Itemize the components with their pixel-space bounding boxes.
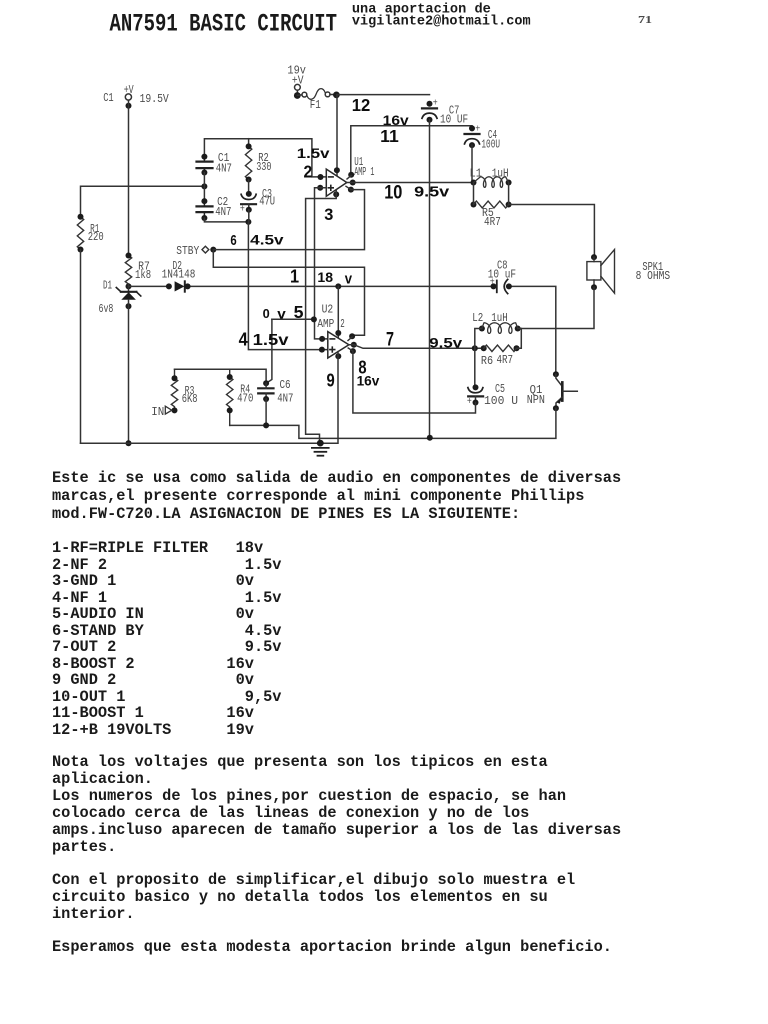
wire C2 bottom to NF node [204,218,248,222]
speaker SPK1 [591,254,597,260]
svg-text:4N7: 4N7 [216,163,232,176]
wire 18v drop to U2 top [337,286,339,338]
svg-text:100U: 100U [481,138,500,151]
wire R2 stub from top rail [248,139,250,147]
svg-text:U2: U2 [322,304,334,317]
wire L2/R6 parallel connections [475,329,522,349]
svg-text:1: 1 [290,266,299,286]
svg-text:Esperamos que esta modesta apo: Esperamos que esta modesta aportacion br… [52,938,612,956]
resistor R6 4R7 [481,345,487,351]
wire C1a bottom to C2 top [203,173,205,202]
svg-text:+: + [467,397,472,408]
wire input vertical from C1 terminal to R7 [128,101,130,256]
wire C5 bottom to pin8 riser [353,351,476,413]
svg-text:R6: R6 [481,355,493,368]
pin dot U1 pin6 stub [348,187,354,193]
svg-text:3-GND 1 0v: 3-GND 1 0v [52,572,254,590]
wire top rail C1a to pin2 corner [204,139,326,177]
svg-text:2: 2 [340,318,345,331]
diamond terminal STBY [202,246,209,253]
node C1a/C2/R1 junction [201,183,207,189]
svg-text:220: 220 [88,231,104,244]
svg-text:circuito basico y no detalla t: circuito basico y no detalla todos los e… [52,888,548,906]
wire NF2 node down to pin4 line [248,210,327,350]
terminal IN arrow [165,406,172,414]
svg-text:+: + [475,124,480,135]
svg-text:1k8: 1k8 [135,269,151,282]
svg-text:0: 0 [263,306,270,321]
svg-text:11-BOOST 1 16v: 11-BOOST 1 16v [52,704,254,722]
ground symbol [317,440,324,447]
wire R2 bottom to C3 top [248,180,250,194]
wire +19v rail to C7 [337,94,430,96]
svg-text:4R7: 4R7 [497,354,514,367]
pin dot U2 top 18v [335,330,341,336]
wire L2 right to speaker bottom [518,287,594,328]
svg-text:AMP 1: AMP 1 [354,166,374,179]
wire output pin10 to L1 [347,182,474,184]
resistor R4 470 [227,369,233,425]
capacitor C6 4N7 [263,380,269,386]
resistor R5 4R7 [471,202,477,208]
svg-text:1.5v: 1.5v [297,145,330,161]
svg-text:18: 18 [317,269,333,285]
svg-text:16v: 16v [357,372,380,388]
pin dot U1 pin11 stub [348,172,354,178]
wire STBY to U2 pin [213,250,364,336]
capacitor C3 47U electrolytic [246,191,252,197]
svg-text:6: 6 [230,232,236,249]
capacitor C4 100U [469,125,475,131]
svg-text:6K8: 6K8 [182,393,198,406]
svg-text:L1: L1 [470,168,483,181]
inductor L2 1uH [479,326,485,332]
svg-text:9.5v: 9.5v [429,335,462,351]
wire Q1 emitter to rail [230,408,556,438]
resistor R1 220 [77,217,83,250]
svg-text:5-AUDIO IN 0v: 5-AUDIO IN 0v [52,605,254,623]
wire bottom ground rail [81,352,339,444]
svg-text:9: 9 [327,370,335,390]
pin dot U2 lower right pin8 [350,348,356,354]
inductor L1 1uH [471,180,477,186]
wire L1/R5 parallel connections [474,183,509,205]
svg-text:C1: C1 [103,92,114,105]
node NF2 junction C2/C3 [245,219,251,225]
svg-text:47U: 47U [259,195,275,208]
svg-text:10 UF: 10 UF [440,114,468,127]
pin dot U2 minus input [319,336,325,342]
resistor R2 330 [245,146,251,179]
diode D2 1N4148 [166,283,172,289]
svg-text:6v8: 6v8 [99,303,114,316]
svg-text:12-+B 19VOLTS 19v: 12-+B 19VOLTS 19v [52,721,254,739]
svg-text:1.5v: 1.5v [253,332,289,349]
svg-text:+: + [240,204,245,215]
wire pin12 drop to U1 [336,95,338,177]
svg-text:+V: +V [292,74,304,87]
svg-text:470: 470 [237,393,253,406]
svg-text:330: 330 [256,161,271,174]
pin dot U1 pin3 bottom [333,191,339,197]
svg-text:1N4148: 1N4148 [162,268,196,281]
svg-text:colocado cerca de las lineas d: colocado cerca de las lineas de conexion… [52,804,529,822]
svg-text:1uH: 1uH [492,168,509,181]
capacitor C7 10UF [427,101,433,107]
pin dot U1 pin12 top [334,167,340,173]
svg-text:5: 5 [294,302,304,322]
resistor R3 6K8 [171,369,177,410]
svg-text:L2: L2 [472,312,483,325]
svg-text:interior.: interior. [52,905,135,923]
wire U2 output pin7 line [349,345,484,349]
svg-text:7-OUT 2 9.5v: 7-OUT 2 9.5v [52,638,282,656]
wire R1 branch horizontal to C1/C2 node [81,186,205,217]
svg-text:4: 4 [239,329,248,349]
svg-text:Los numeros de los pines,por c: Los numeros de los pines,por cuestion de… [52,787,566,805]
wire C4 bottom to L1 left [472,145,474,182]
svg-text:9 GND 2 0v: 9 GND 2 0v [52,671,254,689]
svg-text:8 OHMS: 8 OHMS [636,270,671,283]
wire D1 bottom to ground rail [128,300,130,443]
svg-text:vigilante2@hotmail.com: vigilante2@hotmail.com [352,15,531,30]
svg-text:1uH: 1uH [491,312,507,325]
svg-text:4N7: 4N7 [215,206,231,219]
svg-text:v: v [277,306,286,322]
svg-text:F1: F1 [310,99,321,112]
svg-text:19.5V: 19.5V [140,93,169,106]
op-amp U1 AMP 1 [326,169,347,196]
svg-text:11: 11 [380,126,399,146]
svg-text:mod.FW-C720.LA ASIGNACION DE P: mod.FW-C720.LA ASIGNACION DE PINES ES LA… [52,505,520,523]
pin dot U1 minus input [318,174,324,180]
label minus U2 [330,338,335,340]
node junction R7/D1/D2 [126,283,132,289]
wire pin5 riser to C6 top [266,319,272,383]
node STBY junction [210,247,216,253]
capacitor C8 10uF [491,283,497,289]
svg-text:9.5v: 9.5v [414,184,450,201]
wire U1 pin3 ground run [306,190,337,443]
svg-text:STBY: STBY [176,245,199,258]
wire R1 bottom to bottom rail [80,250,82,444]
svg-text:+V: +V [124,84,134,97]
node 18v to U2 junction [335,283,341,289]
capacitor C2 4N7 [197,201,213,218]
svg-text:1-RF=RIPLE FILTER 18v: 1-RF=RIPLE FILTER 18v [52,539,263,557]
svg-text:4.5v: 4.5v [250,232,284,247]
svg-text:+: + [490,277,495,288]
svg-text:Este ic se usa como salida de: Este ic se usa como salida de audio en c… [52,469,621,487]
svg-text:3: 3 [324,206,333,224]
capacitor C1 4N7 [197,157,213,173]
wire U1 plus input to U2 minus input vertical [315,188,328,339]
node C5/out2 junction [472,345,478,351]
svg-text:v: v [345,270,353,287]
svg-text:AN7591 BASIC CIRCUIT: AN7591 BASIC CIRCUIT [110,12,338,39]
wire boost1 16v rail pin11 [351,126,472,175]
svg-text:12: 12 [352,95,371,115]
pin dot U2 plus input [319,347,325,353]
pin dot U2 bottom pin9 [335,353,341,359]
terminal C1 +19.5V input [125,94,131,109]
svg-text:amps.incluso aparecen de tamañ: amps.incluso aparecen de tamaño superior… [52,821,621,839]
capacitor C5 100U [474,348,476,387]
svg-text:Con el proposito de simplifica: Con el proposito de simplificar,el dibuj… [52,871,575,889]
wire R7 bottom to D1 [128,284,130,292]
wire pin5 audio line [272,318,314,320]
svg-text:10: 10 [384,182,402,204]
label plus U2 [330,347,335,352]
svg-text:IN: IN [151,406,164,419]
resistor R7 1k8 [125,256,131,285]
pin dot U1 output pin10 [350,180,356,186]
svg-text:partes.: partes. [52,838,116,856]
wire C7 bottom long drop to emitter rail [429,120,431,439]
svg-text:+: + [433,99,438,110]
op-amp U2 AMP 2 [328,332,349,358]
svg-text:7: 7 [386,329,394,350]
zener diode D1 6v8 [116,288,140,297]
wire C6 bottom to rail [265,399,267,425]
pin dot U2 upper right stub [349,333,355,339]
svg-text:Nota los voltajes que presenta: Nota los voltajes que presenta son los t… [52,753,548,771]
svg-text:4R7: 4R7 [484,216,501,229]
svg-text:2: 2 [304,162,313,182]
transistor Q1 NPN [553,371,559,377]
svg-text:NPN: NPN [527,394,545,407]
pin dot U2 output pin7 [351,342,357,348]
label plus U1 [328,185,333,190]
svg-text:4N7: 4N7 [277,392,293,405]
wire audio input top rail [175,369,267,383]
label minus U1 [329,176,334,178]
pin dot U1 plus input [317,185,323,191]
svg-text:D1: D1 [103,279,112,292]
wire R5 right to speaker top [509,205,595,258]
svg-text:C6: C6 [280,379,291,392]
svg-text:aplicacion.: aplicacion. [52,770,153,788]
node C7 drop on emitter rail [427,435,433,441]
node +19v rail junction [333,92,340,99]
svg-text:71: 71 [638,14,652,26]
wire 18v ripple line D1 node through D2 to C8 and Q1 [129,286,556,373]
svg-text:marcas,el presente corresponde: marcas,el presente corresponde al mini c… [52,487,584,505]
svg-text:100 U: 100 U [484,395,518,408]
wire STBY to U1 pin6 [213,190,364,250]
terminal 19v +V with fuse F1 [294,84,337,99]
svg-text:AMP: AMP [317,318,334,331]
